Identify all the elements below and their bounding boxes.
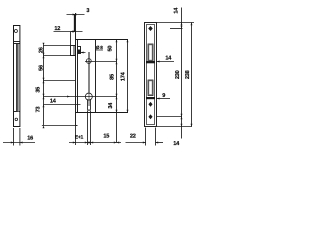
top dim arrows (71, 14, 77, 33)
faceplate bottom edge (76, 125, 78, 127)
latch rear dark half (78, 50, 81, 54)
dim 12 line (54, 31, 83, 33)
svg-text:22: 22 (130, 133, 136, 139)
svg-text:E+1: E+1 (75, 134, 84, 140)
svg-text:12: 12 (54, 26, 60, 32)
left dim column arrows (43, 43, 70, 128)
leader dim 9 right (157, 98, 171, 100)
strike dark band 2 (146, 97, 155, 99)
strike window 1 (148, 44, 153, 61)
faceplate front line (full, serves as ext above and below) (75, 13, 77, 126)
ext strike plate top (157, 22, 195, 24)
svg-text:9: 9 (162, 93, 165, 99)
bottom dim line segment 22 right (156, 142, 164, 144)
ext hub level (44, 80, 76, 82)
strike diamond low (148, 114, 152, 119)
hub circle (86, 59, 91, 64)
left faceplate side view: outer rect (14, 26, 20, 127)
svg-text:16: 16 (27, 136, 33, 142)
ext strike left down (145, 128, 147, 146)
spindle centerline (88, 52, 90, 93)
strike dark band 1 (146, 61, 155, 63)
ext strike plate bottom (157, 126, 192, 128)
svg-text:85: 85 (110, 74, 116, 80)
dim 16 arrows (11, 142, 23, 144)
ext faceplate front down (75, 126, 77, 146)
case bottom edge (76, 112, 129, 114)
ext faceplate bottom (42, 125, 76, 127)
strike plate inner rect (147, 25, 155, 125)
cylinder crosshair horizontal / ext to right dims (85, 96, 117, 98)
dim line 174 (127, 40, 129, 113)
latch bevel line (73, 46, 75, 56)
ext slot right down (90, 111, 92, 146)
dim 14 leader line (44, 104, 81, 106)
left faceplate: top screw hole (14, 30, 17, 33)
strike window 1 inner (149, 45, 152, 60)
strike diamond mid (148, 102, 152, 107)
bottom dim line segment 22 left (126, 142, 147, 144)
ext latch bottom (44, 55, 76, 57)
dim 3 line (67, 14, 85, 16)
dim line 14/230 (181, 8, 183, 117)
left faceplate: dark middle bar (16, 44, 18, 112)
left faceplate: cross line bottom (14, 111, 20, 113)
svg-text:238: 238 (185, 70, 191, 79)
dim 16 ext left (13, 128, 15, 146)
ext latch nose vertical (70, 32, 72, 46)
strike window 2 inner (149, 81, 152, 95)
ext top diamond center (170, 28, 183, 30)
euro cylinder circle (85, 93, 92, 100)
left dim column line (43, 45, 45, 126)
svg-text:26: 26 (38, 47, 44, 53)
dim 16 ext right (19, 128, 21, 146)
dim 16 line (3, 142, 35, 144)
ext strike right down (155, 128, 157, 146)
dim line bottom 14 (181, 117, 183, 139)
svg-text:50: 50 (107, 46, 113, 52)
left faceplate: bottom screw hole (15, 118, 18, 121)
case right edge (95, 40, 97, 113)
strike window 2 (148, 80, 153, 96)
svg-text:Ø 8: Ø 8 (96, 45, 103, 50)
leader dim 14 right (157, 61, 175, 63)
right dim column 50/85/34 (116, 40, 118, 143)
latch front block (71, 46, 76, 56)
case top edge (76, 39, 129, 41)
label diameter 8 underline (96, 49, 104, 51)
hub crosshair / ext to right dims (85, 61, 117, 63)
cylinder inner slot lines (87, 100, 89, 106)
bottom dim line segment E+1/15 (69, 142, 121, 144)
left faceplate: grey middle bar (18, 44, 20, 112)
left faceplate: cross line 2 (14, 43, 20, 45)
ext slot left down (87, 111, 89, 146)
ext diamond low center (157, 116, 182, 118)
svg-text:174: 174 (120, 71, 126, 81)
svg-text:3: 3 (86, 8, 89, 14)
svg-text:15: 15 (103, 134, 109, 140)
strike top diamond (148, 26, 153, 31)
svg-text:73: 73 (36, 107, 42, 113)
svg-text:35: 35 (36, 87, 42, 93)
right dim col arrows (116, 40, 129, 113)
left faceplate: cross line top (14, 41, 20, 43)
latch rear block (78, 47, 81, 54)
ext cylinder center left (44, 96, 86, 98)
ext pair under dim 3 (merged) (74, 15, 76, 32)
faceplate rear line (77, 40, 79, 113)
bottom dim arrows (73, 142, 158, 144)
svg-text:56: 56 (38, 65, 44, 71)
hub leader tick (81, 52, 86, 54)
strike plate outer rect (145, 23, 157, 127)
euro cylinder slot (88, 99, 91, 110)
dim line 238 (191, 23, 193, 127)
svg-text:230: 230 (175, 70, 181, 79)
right dim col arrows (181, 23, 193, 127)
ext latch top (44, 45, 71, 47)
